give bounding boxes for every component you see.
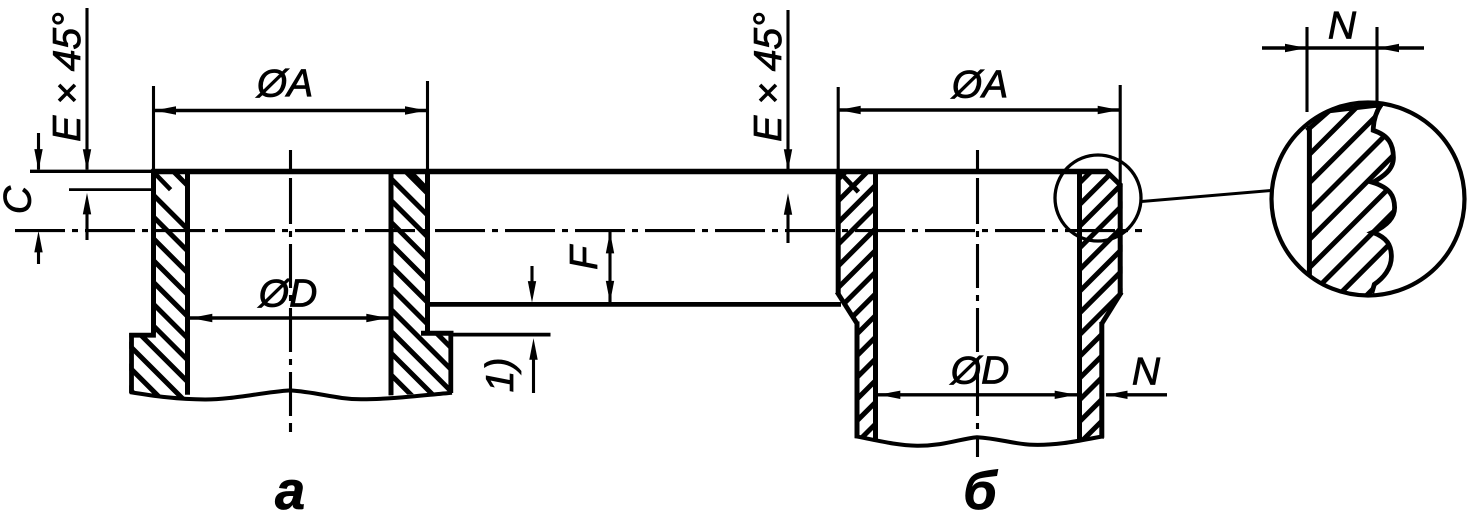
dimension OA figure a: extension lines <box>152 86 155 169</box>
figure a: right outer wall edge <box>425 169 430 331</box>
svg-text:ØD: ØD <box>949 350 1010 393</box>
figure b: right chamfer at detail corner <box>1105 170 1121 186</box>
figure b: left outer wall edge <box>836 169 841 294</box>
common top end-face line of both tubes <box>151 169 1106 174</box>
dimension C: upper arrow <box>37 133 40 170</box>
hatching: figure b left wall <box>828 111 885 494</box>
figure a: chamfer extension line <box>69 188 156 191</box>
figure a: right chamfer <box>411 172 428 190</box>
figure a: top end-face line thin left extension <box>30 170 153 173</box>
svg-text:E × 45°: E × 45° <box>747 12 790 141</box>
figure a: left lower outer edge <box>129 333 134 393</box>
detail big circle <box>1272 103 1465 296</box>
hatching: figure a right wall <box>381 81 460 487</box>
leader line to detail circle <box>1141 191 1272 202</box>
dimension E figure b: line from label with down arrow <box>786 10 789 170</box>
svg-text:ØD: ØD <box>257 273 318 316</box>
figure b: left lower outer edge <box>855 322 860 439</box>
lower connecting line between figures <box>428 302 842 307</box>
hatching: figure b right wall <box>1070 111 1130 497</box>
detail: top end face edge <box>1329 105 1383 111</box>
dimension E figure b: lower arrow <box>784 193 792 215</box>
figure a: right lower outer edge <box>448 331 453 393</box>
svg-text:N: N <box>1132 351 1161 394</box>
svg-text:F: F <box>563 244 606 270</box>
hatching: figure a left wall <box>122 98 197 478</box>
dimension E figure a: lower arrow <box>83 193 91 215</box>
dimension 1): lower arrow <box>529 338 537 360</box>
dimension OA figure b: extension lines <box>837 87 840 169</box>
detail: serrated sealing profile <box>1372 104 1395 293</box>
figure a: left inner bore edge <box>185 169 190 395</box>
dimension N figure b: arrow and tail <box>1106 391 1128 399</box>
svg-text:ØA: ØA <box>950 64 1008 107</box>
figure b: bottom break wavy line <box>855 436 1103 446</box>
svg-text:N: N <box>1328 5 1357 48</box>
dimension E figure a: line from label with down arrow <box>85 8 88 170</box>
dimension OA figure a: dimension line with arrows <box>154 109 428 112</box>
figure b vertical center line <box>976 150 979 461</box>
dimension N detail: extension lines <box>1305 27 1308 112</box>
figure b: left chamfer <box>840 173 858 193</box>
figure a: right inner bore edge <box>389 169 394 395</box>
figure a: left outer wall edge <box>151 169 156 333</box>
svg-text:а: а <box>275 461 305 517</box>
horizontal center line <box>15 229 1142 232</box>
svg-text:б: б <box>963 461 998 517</box>
detail: wall left edge <box>1307 126 1312 284</box>
dimension OD figure a: dimension line with arrows <box>190 316 389 319</box>
figure a: left bottom step shoulder <box>129 333 156 338</box>
dimension N detail: dimension line with inward arrows <box>1262 46 1424 49</box>
svg-text:1): 1) <box>479 358 522 393</box>
svg-text:E × 45°: E × 45° <box>46 12 89 141</box>
figure b: right outer wall edge <box>1118 184 1123 296</box>
svg-text:C: C <box>0 185 40 214</box>
figure b: right lower outer edge <box>1099 322 1104 438</box>
figure a: right step shoulder <box>421 331 454 336</box>
figure b: left taper <box>837 292 857 324</box>
detail marker small circle on figure b corner <box>1055 155 1141 241</box>
figure a vertical center line <box>289 150 292 432</box>
figure a: step extension line for 1) <box>452 333 551 337</box>
detail: hatching of wall <box>1299 0 1404 420</box>
figure a: left chamfer E x 45 <box>154 172 171 189</box>
dimension OD figure b: dimension line with arrows <box>878 393 1077 396</box>
figure a: bottom break wavy line <box>130 390 452 399</box>
figure b: right inner bore edge <box>1077 169 1082 439</box>
dimension 1): upper arrow <box>530 266 533 282</box>
figure b: left inner bore edge <box>873 169 878 439</box>
dimension C: lower arrow <box>34 231 42 253</box>
svg-text:ØA: ØA <box>255 63 313 106</box>
figure b: right taper <box>1102 292 1122 324</box>
dimension OA figure b: dimension line with arrows <box>838 108 1120 111</box>
dimension F: double arrow <box>608 232 611 302</box>
detail: top bevel edge <box>1307 109 1332 131</box>
